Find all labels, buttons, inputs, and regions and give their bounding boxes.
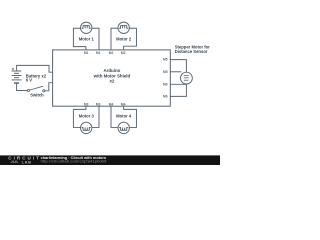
svg-text:x2: x2: [109, 79, 114, 84]
switch SW1: [27, 86, 45, 92]
svg-text:M1: M1: [96, 51, 101, 55]
svg-text:6 V: 6 V: [26, 78, 32, 83]
svg-text:M3: M3: [84, 102, 89, 106]
svg-text:Arduino: Arduino: [103, 68, 120, 73]
svg-text:M2: M2: [121, 51, 126, 55]
Motor 2 label: [116, 36, 132, 41]
svg-text:M4: M4: [121, 102, 126, 106]
wire switch to U1: [45, 83, 53, 91]
wire Motor 2 loop: [111, 28, 136, 50]
battery label: [26, 73, 47, 82]
U1 label: [93, 68, 131, 84]
battery plus sign: [12, 68, 14, 70]
wire U1 pin M5a to stepper top: [170, 60, 186, 73]
svg-text:M5: M5: [163, 58, 168, 62]
watermark bar: [0, 155, 220, 165]
Motor 4 label: [116, 114, 132, 119]
svg-text:Switch: Switch: [30, 93, 44, 98]
watermark title text: [41, 155, 107, 163]
svg-text:Motor 1: Motor 1: [79, 36, 95, 41]
svg-text:M2: M2: [109, 51, 114, 55]
svg-text:M6: M6: [163, 82, 168, 86]
IC U1 Arduino with Motor Shield body: [53, 50, 171, 106]
motor M2 Motor 2: [118, 22, 129, 33]
svg-text:M1: M1: [84, 51, 89, 55]
wire battery negative to switch: [17, 83, 28, 91]
motor M4 Motor 4: [118, 122, 129, 133]
Motor 1 label: [79, 36, 95, 41]
svg-text:M5: M5: [163, 70, 168, 74]
U1 bottom pin labels M3 M3 M4 M4: [84, 102, 126, 106]
svg-text:Motor 2: Motor 2: [116, 36, 132, 41]
stepper motor M5: [181, 72, 193, 84]
wire U1 pin M6a to stepper bottom: [170, 83, 186, 85]
svg-text:with Motor Shield: with Motor Shield: [93, 73, 131, 78]
wire Motor 4 loop: [111, 106, 136, 127]
svg-text:LAB: LAB: [22, 159, 32, 164]
U1 right pin labels M5 M5 M6 M6: [163, 58, 168, 99]
svg-text:Motor 4: Motor 4: [116, 114, 132, 119]
svg-text:Motor 3: Motor 3: [79, 114, 95, 119]
wire battery positive to U1: [17, 65, 53, 72]
motor M1 Motor 1: [81, 22, 92, 33]
Motor 3 label: [79, 114, 95, 119]
svg-text:M4: M4: [109, 102, 114, 106]
U1 top pin labels M1 M1 M2 M2: [84, 51, 126, 55]
stepper label: [175, 44, 210, 54]
svg-text:http://circuitlab.com/c/q2a41p: http://circuitlab.com/c/q2a41pbdn6: [41, 158, 107, 163]
wire Motor 3 loop: [73, 106, 99, 127]
switch label: [30, 93, 44, 98]
svg-text:M3: M3: [96, 102, 101, 106]
battery B1: [12, 71, 22, 83]
svg-text:Distance Sensor: Distance Sensor: [175, 49, 208, 54]
motor M3 Motor 3: [81, 122, 92, 133]
wire U1 pin M5b to stepper left: [170, 71, 181, 73]
wire Motor 1 loop: [73, 28, 99, 50]
wire U1 pin M6b to stepper bottom: [170, 84, 186, 96]
CircuitLab logo: [8, 155, 41, 164]
svg-text:M6: M6: [163, 94, 168, 98]
